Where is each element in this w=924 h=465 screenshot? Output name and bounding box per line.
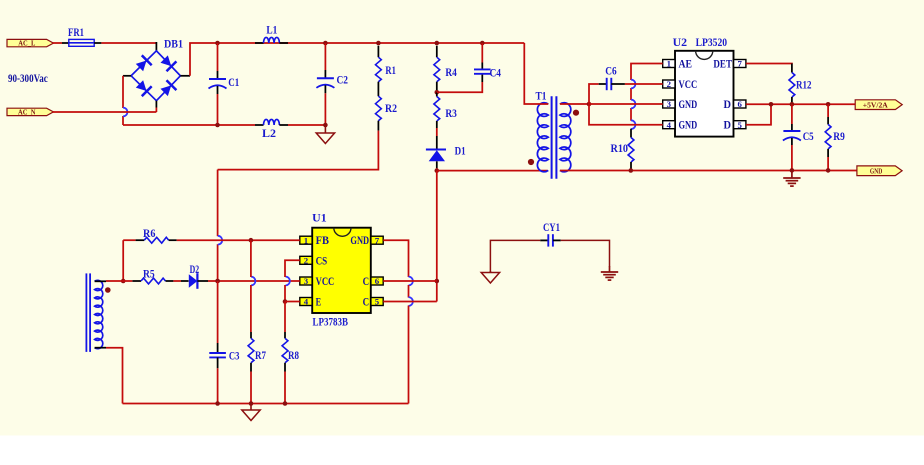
svg-text:4: 4 [667,120,672,130]
transformer T1 primary winding [537,103,548,172]
node R9 bottom [826,168,831,173]
wire T1 secondary top [560,103,589,105]
transformer T1 core [552,96,557,179]
text 90-300Vac [8,71,48,85]
svg-text:R10: R10 [611,143,629,155]
wire E pin [285,301,300,303]
wire hop AE-col at GND4 row [631,120,635,129]
wire hop at AC_N crossing [123,108,127,117]
aux winding coil [95,280,103,348]
wire E column down to R8 [284,302,286,333]
node drain junction [435,168,440,173]
wire FR1 to bridge top [94,42,156,44]
node R12-C5 [790,102,795,107]
wire GND pin to column [383,240,408,277]
U1 pin name C5 [363,295,370,309]
op IC U2 body [675,51,734,137]
earth ground CY1 [601,266,618,280]
ground primary [242,404,260,421]
wire CY1 right to earth [561,240,610,266]
wire CY1 left to ground [490,240,540,272]
label CY1 [543,222,560,234]
wire FB row [123,239,135,241]
node HV-C4 [480,41,485,46]
wire DET to R12 [746,63,792,66]
svg-text:2: 2 [304,255,309,265]
U1 pin name E [316,295,322,309]
node HV-R1 [376,41,381,46]
wire hop CScol at VCC row [286,277,290,286]
svg-text:5: 5 [375,297,380,307]
svg-text:AC_L: AC_L [18,39,35,48]
inductor L1 [255,37,288,43]
svg-text:VCC: VCC [679,77,698,91]
port AC_N [7,108,53,117]
resistor R7 [248,332,254,372]
U2 pin name GND4 [679,118,698,132]
resistor R5 [132,278,173,284]
svg-text:E: E [316,295,322,309]
svg-text:R7: R7 [255,350,266,362]
bridge diode top-left [135,55,152,72]
U1 pin name CS [316,253,328,267]
wire neutral rail [123,124,325,126]
label U1 [312,213,327,225]
wire sec-top up to C6 [589,84,599,104]
U2 pin 6 box [734,99,746,109]
transformer T1 secondary winding [560,103,571,172]
node R4-R3-C4 [435,90,440,95]
node HV-C2 [323,41,328,46]
wire startup rail down [217,170,219,281]
wire FB-R7 column [250,240,252,332]
aux winding core [86,273,90,352]
svg-text:DB1: DB1 [164,39,183,51]
U1 pin name GND [350,233,369,247]
diode D2 [181,273,208,289]
svg-text:R3: R3 [445,108,457,120]
label C4 [490,68,502,80]
wire C6 to VCC pin [625,83,663,85]
svg-text:90-300Vac: 90-300Vac [8,71,48,85]
wire hop GNDcol at C6 row [409,277,413,286]
svg-text:GND: GND [870,166,883,175]
wire drain to T1 primary [437,170,548,172]
wire CS pin to column [285,260,300,277]
node C3 bottom [215,401,220,406]
svg-text:2: 2 [667,79,672,89]
bridge diode bottom-left [135,79,152,96]
earth ground secondary [783,172,800,186]
U1 pin 5 box [371,297,383,307]
svg-text:3: 3 [304,276,309,286]
U1 pin 6 box [371,276,383,286]
U2 pin name AE [679,57,693,71]
wire CS column mid [284,285,286,302]
U2 pin 7 box [734,59,746,69]
wire GND column mid [408,285,410,298]
svg-text:VCC: VCC [316,274,335,288]
bridge rectifier DB1 outline [131,51,180,101]
svg-text:C2: C2 [337,75,349,87]
wire R7 to gnd rail [250,372,252,404]
label R3 [445,108,457,120]
wire R8 to gnd rail [284,372,286,404]
svg-text:R1: R1 [385,65,396,77]
svg-text:C1: C1 [228,77,239,89]
label L1 [266,25,277,37]
svg-text:1: 1 [667,59,671,69]
svg-text:4: 4 [304,297,309,307]
label C5 [803,131,814,143]
wire primary gnd rail [123,403,409,405]
svg-text:D2: D2 [190,264,200,276]
U1 pin name VCC [316,274,335,288]
svg-text:6: 6 [375,276,380,286]
wire HV rail to T1 primary top [524,43,548,104]
label D2 [190,264,200,276]
svg-text:R2: R2 [385,103,397,115]
resistor R9 [825,104,831,170]
svg-text:U1: U1 [312,213,327,225]
svg-text:R9: R9 [833,131,845,143]
wire D6 to +5V port [746,103,855,105]
pin stub bridge top [155,42,157,51]
wire R2 to startup rail [218,131,379,170]
U2 pin 5 box [734,120,746,130]
U1 pin name FB [316,233,329,247]
capacitor C3 [209,281,226,404]
ground at C2 [316,125,334,144]
wire aux bottom lead [95,348,123,404]
resistor R10 [628,129,634,171]
svg-text:C6: C6 [605,65,617,77]
bridge diode top-right [159,54,176,71]
svg-text:DET: DET [713,57,732,71]
svg-text:GND: GND [679,118,698,132]
label R1 [385,65,396,77]
svg-text:FR1: FR1 [68,27,84,39]
label C1 [228,77,239,89]
label D1 [455,146,466,158]
resistor R8 [282,332,288,372]
node C5 bottom [790,168,795,173]
label L2 [262,128,276,140]
U1 pin 7 box [371,235,383,245]
wire hop at FB row [218,236,222,245]
svg-text:AE: AE [679,57,693,71]
svg-text:D1: D1 [455,146,466,158]
U2 pin name GND3 [679,97,698,111]
svg-text:C: C [363,295,370,309]
resistor R2 [376,96,382,130]
port GND [857,166,902,176]
label R10 [611,143,629,155]
node D5-D6 [769,102,774,107]
label R9 [833,131,845,143]
U1 pin name C6 [363,274,370,288]
svg-text:LP3783B: LP3783B [313,316,349,328]
node C6pin junction [435,279,440,284]
svg-text:7: 7 [375,235,380,245]
wire HV rail [218,42,524,44]
svg-text:LP3520: LP3520 [696,37,728,49]
polarity dot T1 primary [528,159,534,165]
label T1 [536,91,547,103]
bridge diode bottom-right [159,80,176,97]
svg-text:7: 7 [737,59,742,69]
label C6 [605,65,617,77]
wire hop GNDcol at C5 row [409,297,413,306]
svg-text:5: 5 [737,120,742,130]
svg-text:6: 6 [737,99,742,109]
svg-text:L2: L2 [262,128,276,140]
resistor R6 [136,237,177,243]
U2 pin 2 box [663,79,675,89]
label R8 [288,350,299,362]
wire sec-top down to GND4 pin [589,104,663,125]
svg-text:CS: CS [316,253,328,267]
U2 pin name D6 [724,97,732,111]
resistor R4 [434,46,440,93]
svg-text:C3: C3 [229,350,240,362]
svg-text:D: D [724,97,732,111]
port +5V/2A [855,100,902,110]
wire D5 up to +5V row [746,104,771,124]
node R10 bottom [629,168,634,173]
U2 pin 1 box [663,59,675,69]
svg-text:D: D [724,118,732,132]
op IC U1 body [312,228,371,313]
svg-text:GND: GND [350,233,369,247]
svg-text:GND: GND [679,97,698,111]
svg-text:+5V/2A: +5V/2A [863,100,889,109]
wire hop AE-col at GND3 row [631,100,635,109]
wire T1 secondary bottom to GND rail [560,170,857,172]
wire hop R7col at VCC row [251,277,255,286]
capacitor C6 [599,78,625,90]
wire GND column down [408,306,410,404]
node HV-R4 [435,41,440,46]
node neutral-C1 [215,123,220,128]
U1 pin 2 box [300,255,312,265]
node R7 bottom [249,401,254,406]
wire sec-top to GND3 pin [589,103,663,105]
label LP3783B [313,316,349,328]
port AC_L [7,39,53,48]
svg-text:C: C [363,274,370,288]
inductor L2 [255,119,288,125]
fuse FR1 [69,39,94,46]
wire AE to R10 column [631,64,663,81]
label C2 [337,75,349,87]
wire C5 pin to drain [383,301,437,303]
node R9 top [826,102,831,107]
U2 pin name VCC [679,77,698,91]
node E junction [283,299,288,304]
wire C6 pin to drain [383,280,437,282]
wire bridge right to HV rail [190,43,218,76]
node R8 bottom [283,401,288,406]
label LP3520 [696,37,728,49]
wire aux top lead [95,280,133,282]
wire D2 to VCC pin [208,280,300,282]
wire AC_N row [53,108,157,113]
label FR1 [68,27,84,39]
U1 pin 4 box [300,297,312,307]
svg-text:FB: FB [316,233,329,247]
pin stub bridge bottom [155,101,157,108]
wire R5 to D2 [173,280,181,282]
wire drain down to U1 [436,171,438,302]
svg-text:1: 1 [304,235,308,245]
U2 pin name DET [713,57,732,71]
node HV-C1 [215,41,220,46]
label C3 [229,350,240,362]
capacitor CY1 [540,234,561,246]
node aux-R5-R6 [121,279,126,284]
U2 pin name D5 [724,118,732,132]
wire R10 column mid2 [630,108,632,121]
svg-text:C4: C4 [490,68,502,80]
label R12 [796,79,812,91]
U1 pin 1 box [300,235,312,245]
wire R6 to FB pin [177,239,300,241]
wire AC_L to FR1 [53,42,69,44]
node neutral-C2 [323,123,328,128]
wire left FB column down [122,240,124,281]
wire hop AE-col at VCC row [631,80,635,89]
resistor R3 [434,92,440,128]
svg-text:AC_N: AC_N [18,108,36,117]
wire R10 column mid1 [630,88,632,100]
resistor R1 [376,46,382,96]
svg-text:U2: U2 [673,37,688,49]
capacitor C1 [209,43,227,125]
label R6 [143,228,156,240]
svg-text:R12: R12 [796,79,812,91]
wire bridge left to bottom rail [122,76,124,125]
U2 pin 3 box [663,99,675,109]
svg-text:R8: R8 [288,350,299,362]
capacitor C2 [316,43,334,125]
polarity dot aux [105,287,111,293]
U1 pin 3 box [300,276,312,286]
svg-text:R4: R4 [445,67,457,79]
label R7 [255,350,266,362]
svg-text:R5: R5 [143,269,155,281]
label DB1 [164,39,183,51]
U2 pin 4 box [663,120,675,130]
label R2 [385,103,397,115]
node secondary top [587,102,592,107]
svg-text:C5: C5 [803,131,814,143]
label U2 [673,37,688,49]
ground CY1 left [481,271,499,283]
label R5 [143,269,155,281]
resistor R12 [789,64,795,105]
svg-text:L1: L1 [266,25,277,37]
pin stub bridge right [180,75,190,77]
svg-text:3: 3 [667,99,672,109]
node VCC-startup junction [215,279,220,284]
polarity dot T1 secondary [573,110,579,116]
svg-text:R6: R6 [143,228,156,240]
diode D1 [426,128,446,171]
capacitor C5 [783,104,801,170]
pin stub bridge left [123,75,131,77]
capacitor C4 [437,43,491,92]
wire R10 column mid3 [0,0,1,1]
node FB-R7 [249,238,254,243]
svg-text:T1: T1 [536,91,547,103]
label R4 [445,67,457,79]
svg-text:CY1: CY1 [543,222,560,234]
node VCC-startup [215,279,220,284]
